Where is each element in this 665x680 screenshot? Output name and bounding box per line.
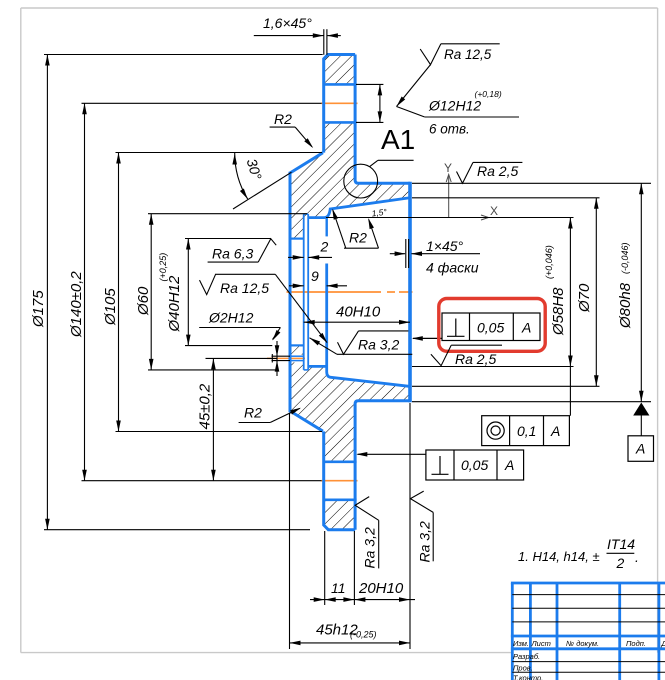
tolerance frame perpendicularity 0,05 A (highlighted) [413, 313, 540, 341]
svg-text:Ø58H8: Ø58H8 [550, 287, 567, 336]
tolerance frame perpendicularity 0,05 A (bottom) [358, 450, 524, 480]
part: bore step line segment top [326, 218, 328, 237]
dimension 40H10 [304, 304, 410, 325]
centerline: main axis [287, 291, 413, 293]
svg-text:Ø105: Ø105 [102, 288, 119, 326]
detail view leader and label A1 [370, 160, 414, 166]
roughness Ra 3,2 (groove, with leader) [310, 331, 413, 354]
svg-text:20H10: 20H10 [358, 580, 404, 597]
svg-text:(+0,18): (+0,18) [475, 89, 502, 99]
svg-text:А: А [504, 457, 514, 473]
roughness Ra 3,2 rotated (rim right face) [355, 497, 379, 569]
svg-text:(-0,046): (-0,046) [620, 242, 630, 274]
svg-text:Подп.: Подп. [626, 639, 646, 648]
svg-text:45±0,2: 45±0,2 [197, 383, 214, 429]
dimension d60 [135, 214, 154, 370]
svg-text:9: 9 [311, 268, 319, 284]
dimension d58H8 [544, 218, 573, 367]
centerline: bottom bolt hole [321, 480, 358, 482]
dimension 45+-0.2 [197, 358, 216, 480]
bottom extension lines [290, 403, 411, 649]
hatching: bottom rim block [324, 500, 355, 530]
roughness Ra 2,5 (d80 surface) [457, 162, 523, 183]
svg-text:2: 2 [320, 239, 329, 255]
svg-text:Ø80h8: Ø80h8 [617, 282, 634, 329]
svg-text:0,05: 0,05 [477, 320, 504, 336]
part: bolt hole window edges bottom [323, 460, 357, 463]
dimension d80h8 with datum A [617, 183, 644, 401]
svg-text:№ докум.: № докум. [566, 639, 599, 648]
hatching: upper body block [291, 122, 410, 238]
part: bolt hole window edges top [323, 83, 357, 86]
svg-text:Изм.: Изм. [513, 639, 529, 648]
svg-text:0,1: 0,1 [517, 423, 536, 439]
roughness Ra 2,5 (d58 bore) [431, 345, 502, 366]
svg-text:Ø140±0,2: Ø140±0,2 [68, 271, 85, 338]
svg-text:А: А [635, 441, 645, 457]
svg-text:Ø2H12: Ø2H12 [208, 310, 254, 326]
svg-text:4 фаски: 4 фаски [426, 260, 479, 276]
part: groove d60 walls [303, 214, 305, 370]
part: small hole d2 walls [291, 355, 304, 357]
extension lines left stack [44, 55, 323, 530]
title block row lines [512, 595, 665, 673]
part: right end face [408, 182, 412, 402]
title block [511, 583, 665, 680]
dimension 9 [289, 285, 347, 287]
dimension d105 [102, 153, 121, 432]
dimension d70 [576, 198, 599, 386]
svg-text:Ra 12,5: Ra 12,5 [444, 47, 492, 62]
svg-text:Ra 2,5: Ra 2,5 [477, 163, 518, 179]
svg-text:Ø70: Ø70 [576, 283, 593, 313]
svg-text:Ra 3,2: Ra 3,2 [417, 521, 433, 562]
svg-text:1. H14, h14, ±: 1. H14, h14, ± [518, 549, 600, 564]
svg-text:.: . [635, 549, 639, 565]
svg-text:Ra 3,2: Ra 3,2 [358, 337, 399, 353]
svg-text:А: А [521, 320, 531, 336]
svg-text:R2: R2 [274, 111, 292, 127]
roughness Ra 6,3 (bore d40) [208, 239, 277, 262]
svg-text:11: 11 [331, 580, 346, 596]
svg-text:Д: Д [661, 639, 665, 648]
svg-text:Ø175: Ø175 [30, 290, 47, 328]
fillet label R2 middle [333, 210, 379, 248]
part: rim bottom edge with chamfer [324, 431, 355, 529]
right side extension lines [326, 183, 651, 401]
dimension d140 [68, 103, 87, 480]
svg-text:Ø12H12: Ø12H12 [428, 98, 481, 114]
svg-text:40H10: 40H10 [336, 304, 381, 321]
datum A symbol [628, 403, 654, 462]
fillet label R2 bottom [239, 408, 300, 422]
svg-text:R2: R2 [244, 405, 262, 421]
svg-text:Ø40H12: Ø40H12 [166, 275, 183, 333]
svg-text:1×45°: 1×45° [426, 238, 464, 254]
part: hub bottom edge + rim right face bottom [355, 401, 410, 530]
part: bore d58 top surface + inner cone top [308, 198, 409, 218]
svg-text:Разраб.: Разраб. [513, 652, 540, 661]
dimension 2 (groove width) [288, 256, 332, 258]
svg-text:(+0,25): (+0,25) [158, 253, 168, 282]
svg-text:Ra 3,2: Ra 3,2 [362, 527, 378, 568]
svg-text:Ø60: Ø60 [135, 286, 152, 316]
svg-text:2: 2 [616, 555, 625, 571]
svg-text:(+0,046): (+0,046) [544, 245, 554, 279]
svg-text:(-0,25): (-0,25) [350, 630, 377, 640]
svg-text:R2: R2 [349, 230, 367, 246]
part: outer cone bottom [290, 411, 323, 431]
svg-text:Ra 6,3: Ra 6,3 [212, 246, 253, 262]
svg-text:IT14: IT14 [607, 536, 635, 552]
roughness Ra 3,2 rotated (right end face) [410, 491, 433, 561]
svg-text:1,5°: 1,5° [371, 207, 388, 219]
roughness Ra 12,5 (bolt hole) [397, 44, 500, 107]
svg-text:А1: А1 [381, 124, 415, 155]
centerline: top bolt hole [321, 102, 358, 104]
part: bore d58 bottom surface + inner cone bottom [308, 264, 409, 387]
roughness Ra 12,5 (left, with leader) [200, 274, 328, 343]
svg-text:X: X [490, 204, 498, 218]
part: rim right face top + hub top edge [355, 55, 410, 184]
dimension d40H12 [158, 239, 191, 346]
detail view circle [344, 164, 378, 198]
XY coordinate marker [446, 175, 488, 221]
red highlight box [439, 299, 545, 352]
callout d12H12 6 holes [397, 107, 520, 118]
svg-text:Лист: Лист [531, 639, 551, 648]
centerline: small hole [267, 357, 305, 359]
svg-text:Т.контр.: Т.контр. [513, 674, 543, 680]
svg-text:Y: Y [444, 161, 452, 175]
dimension 45h12 [290, 622, 411, 646]
angle dimension 30deg [233, 153, 292, 210]
dimension 1x45 chamfer right face [390, 239, 480, 268]
title block texts [513, 639, 665, 680]
callout d2H12 [199, 310, 280, 342]
small hole void (white) [291, 355, 304, 363]
svg-text:1,6×45°: 1,6×45° [263, 15, 312, 31]
svg-text:6 отв.: 6 отв. [429, 122, 470, 137]
svg-text:0,05: 0,05 [461, 457, 488, 473]
svg-text:А: А [550, 423, 560, 439]
fillet label R2 top [270, 127, 312, 147]
dimension d2H12 of small hole [275, 341, 280, 376]
svg-text:Ra 12,5: Ra 12,5 [220, 280, 269, 296]
hatching: top rim block [324, 55, 355, 85]
dimension 1,6x45 chamfer [254, 29, 341, 55]
part: rim left face top [324, 55, 355, 153]
dimension d12H12 bolt hole [356, 84, 383, 122]
svg-text:Пров.: Пров. [513, 664, 533, 673]
hatching: lower body block [291, 345, 410, 461]
dimension d175 [30, 55, 50, 530]
svg-text:Ra 2,5: Ra 2,5 [455, 351, 496, 367]
part: bore d40 surfaces [291, 238, 304, 240]
technical note [518, 536, 639, 571]
part: outer cone top 30deg [290, 153, 323, 173]
part: left end face [289, 172, 292, 412]
tolerance frame concentricity 0,1 A [482, 367, 571, 446]
dimension 11 and 20H10 [310, 599, 415, 601]
